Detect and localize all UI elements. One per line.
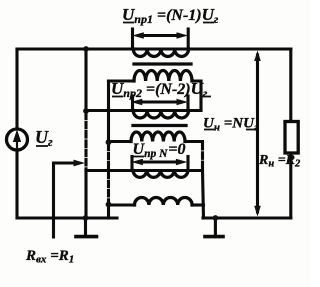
svg-text:Rвх =R1: Rвх =R1 [25,248,74,266]
svg-text:Rн =R2: Rн =R2 [258,153,301,170]
svg-text:Uн =NUг: Uн =NUг [203,116,258,134]
